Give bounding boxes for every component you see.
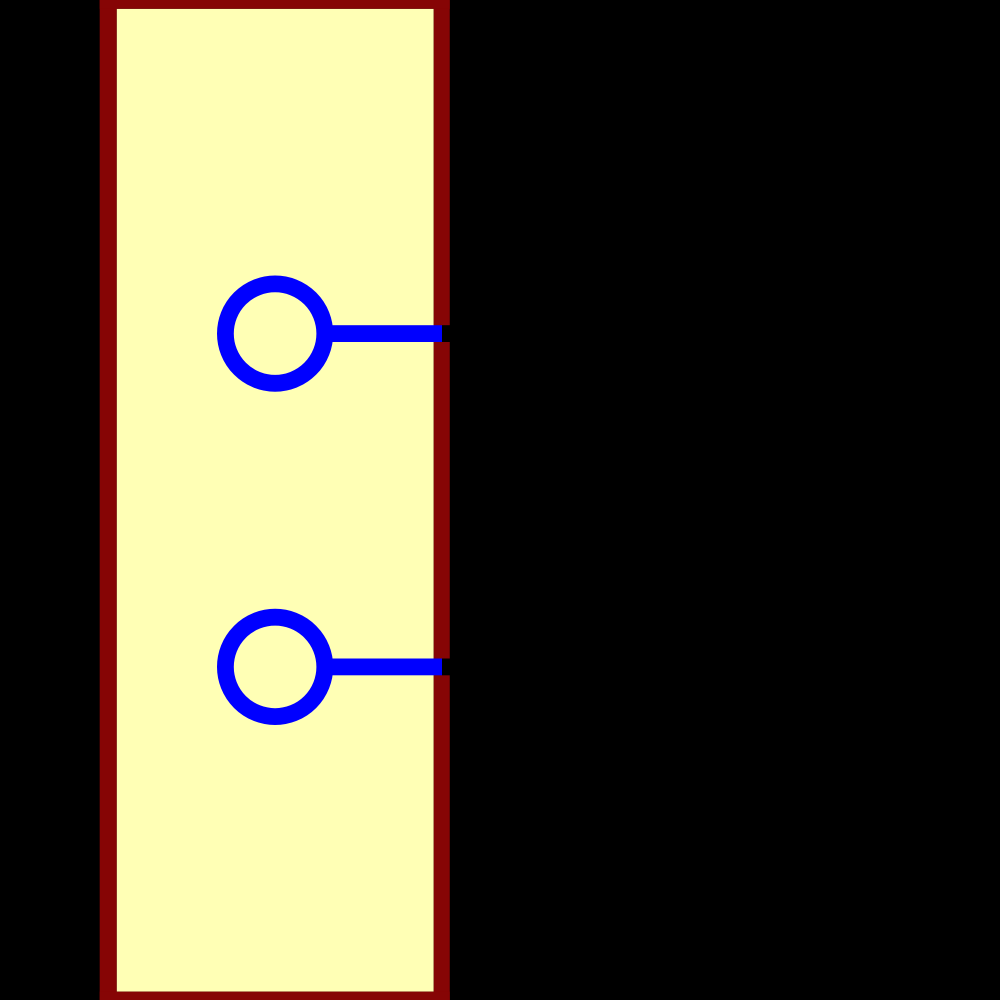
pin 2 lead bbox=[323, 659, 442, 676]
pin 2 endpoint notch bbox=[442, 659, 458, 676]
pin 1 endpoint notch bbox=[442, 325, 458, 342]
pin 2 inversion bubble bbox=[225, 617, 324, 716]
pin 1 inversion bubble bbox=[225, 284, 324, 383]
component body U1 (yellow fill, maroon outline) bbox=[100, 0, 450, 1000]
pin 1 lead bbox=[323, 325, 442, 342]
